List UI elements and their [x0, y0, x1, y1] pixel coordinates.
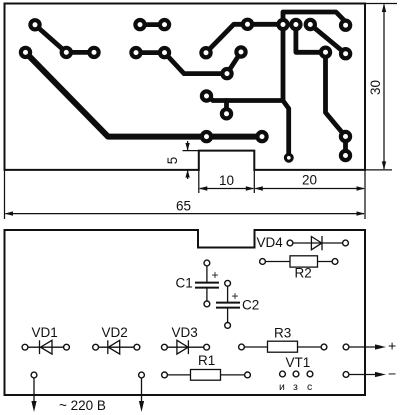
svg-text:VD3: VD3 — [172, 325, 198, 340]
pad P6 — [291, 20, 300, 29]
pad VD4 right — [343, 240, 349, 246]
pad C1 bottom — [204, 301, 210, 307]
wire trace T4 — [206, 24, 283, 52]
dimension 65 extension right — [364, 170, 366, 219]
svg-text:65: 65 — [176, 199, 191, 214]
pad P7 — [306, 20, 315, 29]
dimension 20 arrow right — [357, 186, 366, 190]
svg-text:20: 20 — [302, 173, 317, 188]
pad P4 — [243, 20, 252, 29]
wire trace T8 — [310, 25, 345, 54]
dimension 5 arrow up — [185, 170, 189, 178]
pad R1 right — [245, 372, 251, 378]
wire trace T6 horizontal to jog — [207, 96, 289, 158]
svg-text:+: + — [212, 268, 219, 282]
svg-text:VD2: VD2 — [102, 325, 128, 340]
pad P18 — [222, 69, 231, 78]
dimension 5 extension — [183, 150, 200, 152]
pad C1 top — [204, 260, 210, 266]
dimension 10 arrow right — [246, 186, 255, 190]
pad P17 — [341, 49, 350, 58]
dimension 65 arrow right — [357, 211, 366, 215]
board outline (PCB copper side) — [5, 4, 366, 170]
svg-text:5: 5 — [165, 157, 180, 165]
svg-text:−: − — [388, 366, 396, 382]
arrow output minus — [375, 372, 386, 377]
svg-text:+: + — [232, 289, 239, 303]
svg-text:10: 10 — [219, 173, 234, 188]
pad R3 left — [239, 344, 245, 350]
pad AC right — [139, 372, 145, 378]
arrow output plus — [375, 344, 386, 349]
dimension 20 arrow left — [254, 186, 262, 190]
transistor VT1 pin з — [293, 371, 299, 377]
pad C2 top — [225, 280, 231, 286]
dimension 30 arrow up — [382, 4, 386, 13]
pad R1 left — [162, 372, 168, 378]
wire trace T7 — [296, 25, 346, 156]
dimension 10 extension right — [253, 170, 255, 193]
dimension 5 line upper — [187, 141, 189, 150]
wire trace T5 arch — [283, 12, 346, 25]
transistor VT1 pin с — [307, 371, 313, 377]
pad P16 — [321, 48, 330, 57]
dimension 10 arrow left — [199, 186, 208, 190]
wire trace T6 vertical — [281, 25, 286, 101]
pad R2 left — [260, 259, 266, 265]
pad C2 bottom — [225, 323, 231, 329]
svg-text:C2: C2 — [242, 298, 259, 313]
dimension 10 line — [200, 188, 254, 190]
pad P14 — [201, 48, 210, 57]
svg-text:VD1: VD1 — [32, 325, 58, 340]
wire AC input left — [33, 375, 35, 403]
dimension 10 extension left — [198, 170, 200, 193]
pad VD2 left — [93, 344, 99, 350]
dimension 65 extension left — [4, 170, 6, 219]
transistor VT1 pin и — [280, 371, 286, 377]
pad P5 — [278, 20, 287, 29]
dimension 30 extension top — [365, 3, 397, 5]
arrow AC right — [139, 401, 144, 412]
svg-text:30: 30 — [368, 80, 383, 95]
pad P19 — [202, 91, 211, 100]
svg-text:C1: C1 — [176, 276, 193, 291]
wire trace T9 thick — [26, 52, 263, 136]
dimension 30 arrow down — [382, 161, 386, 170]
diode VD4 — [290, 236, 346, 250]
pad P9 — [21, 48, 30, 57]
pad P20 — [222, 109, 231, 118]
pad P8 — [341, 21, 350, 30]
svg-text:VT1: VT1 — [286, 355, 311, 370]
capacitor C1 — [195, 263, 219, 304]
resistor R1 — [165, 370, 248, 381]
capacitor C2 — [216, 283, 240, 325]
pad P10 — [62, 48, 71, 57]
wire trace T2 — [140, 22, 165, 27]
pad VD2 right — [134, 344, 140, 350]
dimension 65 line — [6, 213, 365, 215]
pad AC left — [31, 372, 37, 378]
pad VD1 left — [22, 344, 28, 350]
pad R3 right — [321, 344, 327, 350]
svg-text:R1: R1 — [198, 353, 215, 368]
pad P12 — [131, 48, 140, 57]
wire trace T1 — [35, 25, 94, 53]
dimension 5 line lower — [187, 171, 189, 180]
wire trace T6 stub — [224, 101, 229, 114]
pad P3 — [160, 20, 169, 29]
svg-text:и: и — [279, 381, 285, 393]
pad P1 — [30, 20, 39, 29]
pad output minus — [343, 372, 349, 378]
resistor R2 — [263, 256, 336, 267]
svg-text:R2: R2 — [295, 266, 312, 281]
diode VD3 — [164, 340, 206, 354]
pad VD3 left — [162, 344, 168, 350]
pad P25 small — [285, 154, 292, 161]
pad output plus — [343, 344, 349, 350]
diode VD1 — [25, 340, 67, 354]
svg-text:~ 220 В: ~ 220 В — [59, 398, 106, 413]
pad VD3 right — [204, 344, 210, 350]
pad R2 right — [332, 259, 338, 265]
component layout box outline — [5, 230, 366, 395]
svg-text:+: + — [388, 338, 396, 354]
pad P13 — [160, 48, 169, 57]
svg-text:VD4: VD4 — [257, 235, 284, 250]
wire output plus — [346, 346, 378, 348]
dimension 20 line — [255, 188, 364, 190]
pad P24 — [341, 151, 350, 160]
pad VD4 left — [287, 240, 293, 246]
diode VD2 — [96, 340, 137, 354]
wire trace T3 — [136, 52, 241, 74]
svg-text:с: с — [307, 381, 312, 393]
resistor R3 — [242, 341, 325, 352]
wire output minus — [346, 374, 378, 376]
wire AC input right — [141, 375, 143, 403]
pad P15 — [236, 47, 245, 56]
pad VD1 right — [64, 344, 70, 350]
svg-text:з: з — [293, 381, 298, 393]
pad P22 — [257, 132, 266, 141]
svg-text:R3: R3 — [274, 326, 291, 341]
pad P11 — [89, 48, 98, 57]
dimension 30 line — [383, 5, 385, 170]
arrow AC left — [31, 401, 36, 412]
pad P2 — [135, 20, 144, 29]
pad P23 — [341, 132, 350, 141]
dimension 5 arrow down — [185, 143, 189, 151]
pad P21 — [202, 132, 211, 141]
dimension 30 extension bottom — [365, 169, 392, 171]
dimension 65 arrow left — [5, 211, 14, 215]
